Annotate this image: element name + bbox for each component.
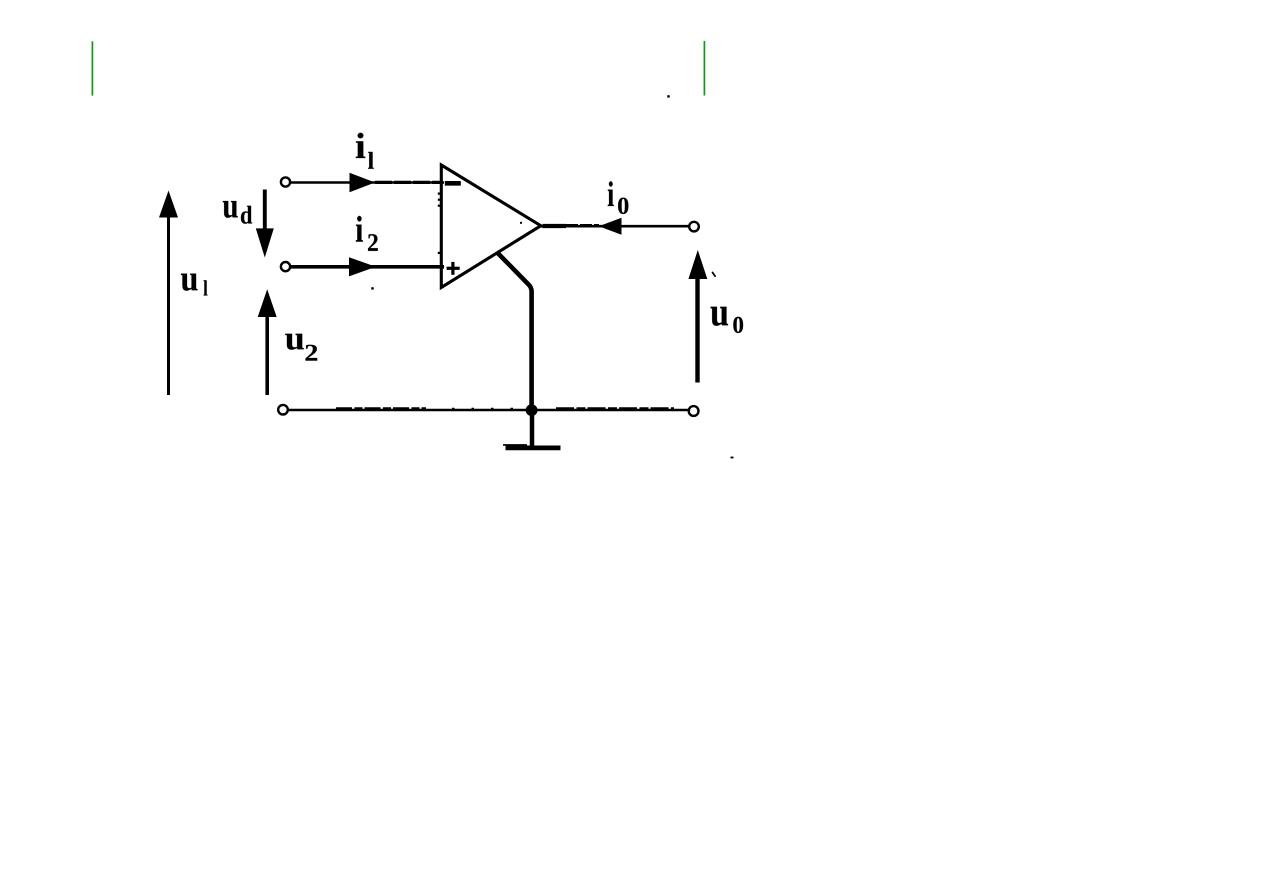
bottom rail wire: [288, 409, 689, 411]
label i0: [608, 181, 629, 214]
op-amp U1 triangle: [441, 165, 541, 288]
op-amp U1 minus input marker: [445, 181, 461, 186]
scan thickening on inverting wire: [375, 181, 442, 184]
scan ticks on triangle left edge: [438, 193, 441, 255]
scan dots on rail (middle): [452, 408, 522, 410]
scan thickening on rail (left): [336, 407, 426, 410]
scan dash below u0: [731, 457, 734, 459]
ground: [503, 410, 561, 448]
voltage arrow u1: [159, 191, 178, 396]
terminal (bottom right): [689, 406, 699, 416]
current arrow i0 (pointing left): [599, 218, 622, 235]
scan tick near u0 arrowhead: [713, 273, 716, 277]
label u0: [711, 307, 743, 333]
label i1: [356, 133, 374, 169]
wire inverting input: [291, 181, 445, 184]
voltage arrow u0: [688, 250, 707, 383]
scan speck below i2 wire: [371, 287, 373, 289]
scan artifact: green line right: [703, 41, 705, 96]
op-amp U1 plus input marker: [447, 262, 460, 275]
scan thickening on output wire: [543, 224, 567, 228]
scan speck near right green line: [667, 95, 669, 97]
terminal (inverting input): [281, 177, 290, 186]
current arrow i2: [349, 257, 376, 276]
current arrow i1: [350, 173, 376, 192]
label i2: [356, 216, 378, 251]
output wire: [541, 225, 690, 228]
terminal (bottom left): [278, 405, 288, 415]
voltage arrow u2: [258, 289, 277, 395]
junction node: [526, 404, 538, 416]
label u1: [181, 274, 208, 296]
scan artifact: green line left: [91, 41, 93, 95]
scan speck inside triangle: [520, 222, 522, 224]
label u2: [285, 334, 317, 361]
scan thickening on rail (right): [556, 407, 674, 410]
label ud: [223, 201, 252, 224]
voltage arrow ud (down): [256, 190, 274, 258]
terminal (non-inverting input): [281, 262, 290, 271]
terminal (output): [689, 222, 699, 232]
wire non-inverting input: [291, 265, 445, 269]
feedback wire from triangle to ground node: [497, 253, 531, 411]
